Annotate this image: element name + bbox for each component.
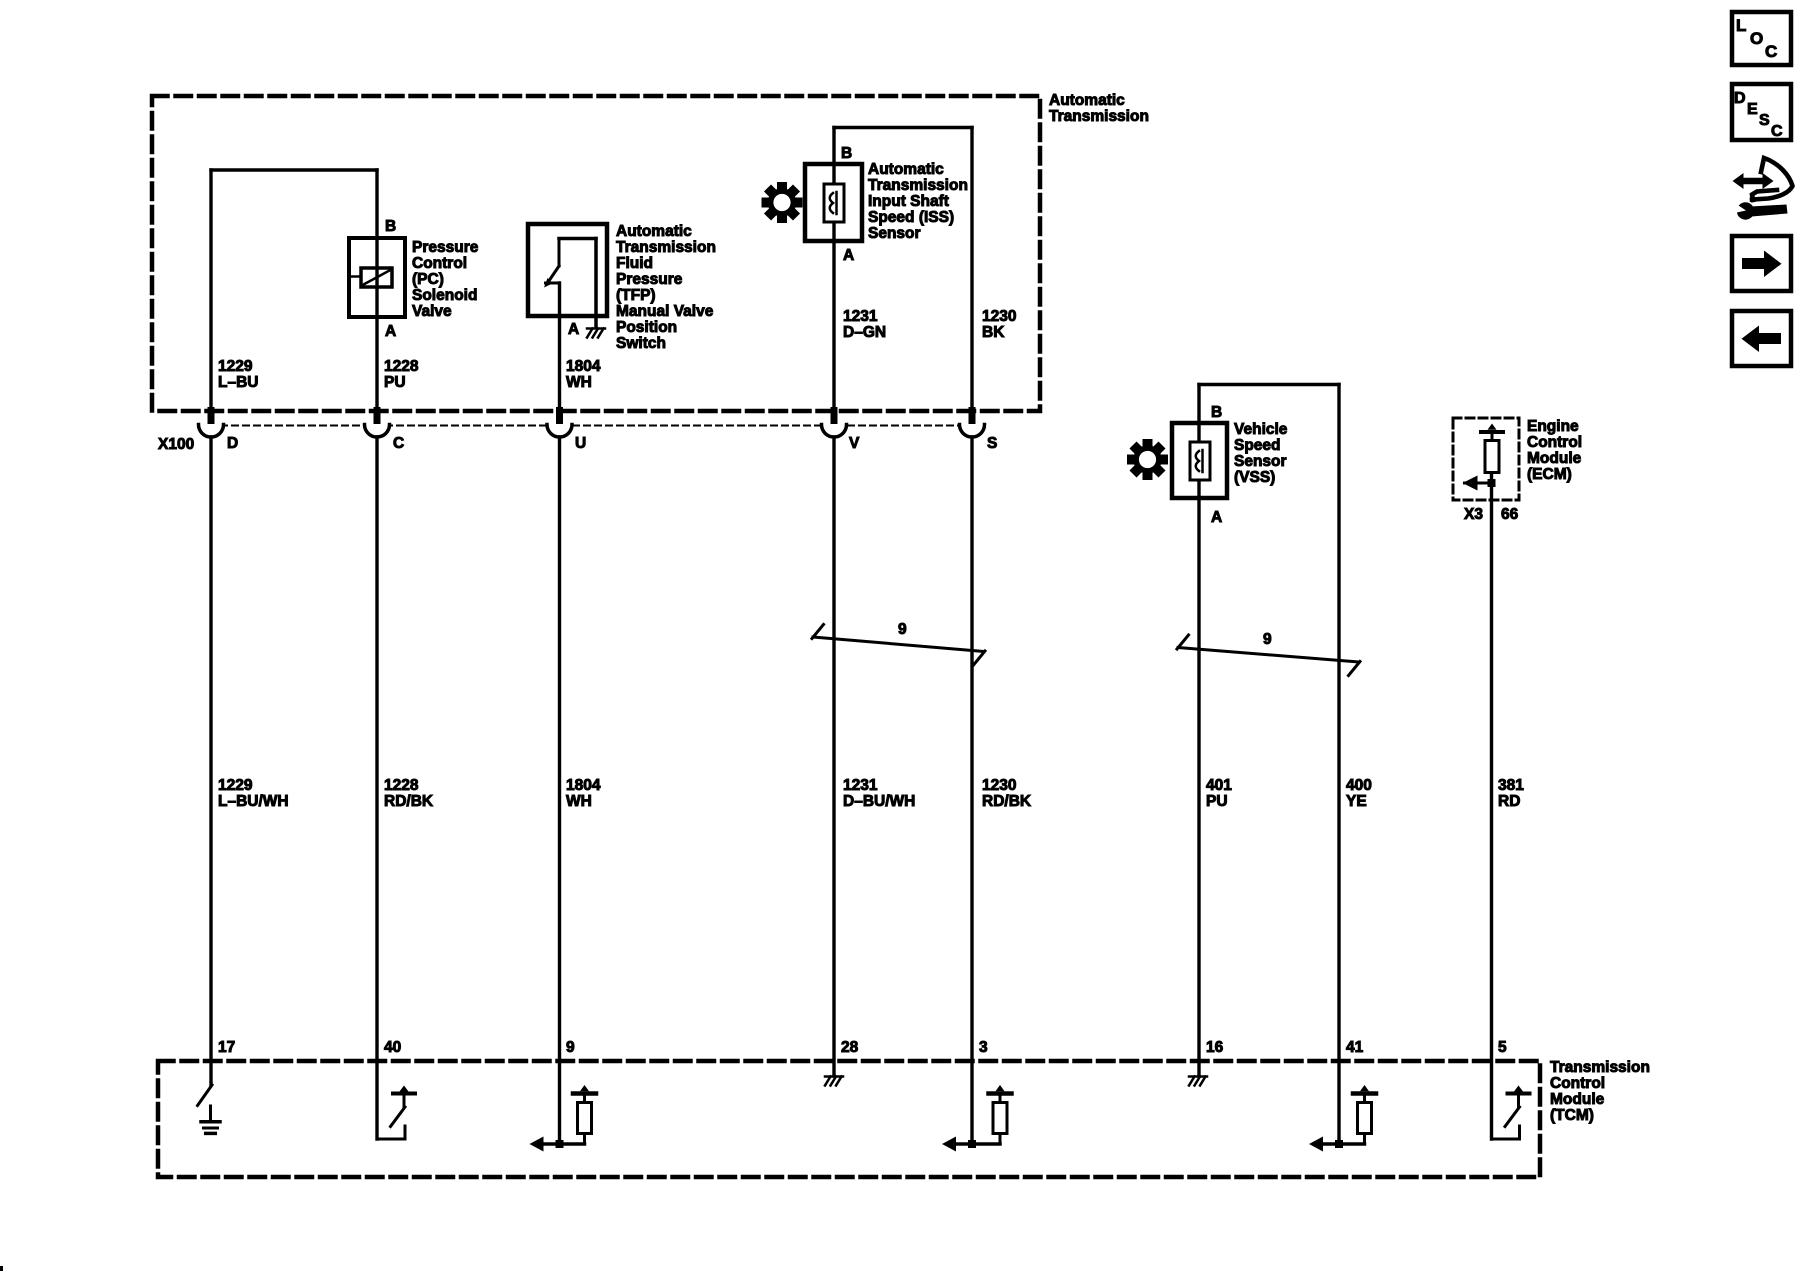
svg-text:Sensor: Sensor — [1234, 453, 1287, 470]
svg-text:Input Shaft: Input Shaft — [868, 193, 949, 210]
svg-text:S: S — [987, 435, 997, 452]
svg-text:E: E — [1747, 101, 1758, 118]
svg-text:D: D — [227, 435, 238, 452]
wire 1229 L-BU from X100 D to solenoid pin B — [209, 170, 212, 408]
wire 1230 BK from ISS loop to X100 S — [970, 128, 973, 409]
svg-text:Valve: Valve — [412, 303, 452, 320]
svg-text:(PC): (PC) — [412, 271, 444, 288]
svg-text:41: 41 — [1346, 1039, 1364, 1056]
svg-text:B: B — [385, 218, 396, 235]
ISS pickup coil element — [824, 184, 844, 222]
svg-text:Switch: Switch — [616, 335, 666, 352]
wire 1804 WH lower run to TCM pin 9 — [558, 437, 561, 1146]
svg-text:66: 66 — [1501, 506, 1519, 523]
svg-text:381: 381 — [1498, 777, 1524, 794]
TCM pin 28 chassis ground — [825, 1075, 843, 1078]
connector X100 dotted line — [199, 425, 985, 427]
Engine Control Module (ECM) dashed box — [1453, 418, 1519, 500]
svg-text:Vehicle: Vehicle — [1234, 421, 1288, 438]
svg-text:Sensor: Sensor — [868, 225, 921, 242]
svg-text:C: C — [1771, 123, 1783, 140]
svg-text:RD/BK: RD/BK — [384, 793, 434, 810]
Transmission Control Module (TCM) enclosure box — [158, 1061, 1540, 1177]
TCM pin 40 switch — [377, 1138, 405, 1141]
wire 1228 RD/BK lower run to TCM pin 40 — [375, 437, 378, 1139]
svg-text:(VSS): (VSS) — [1234, 469, 1275, 486]
bundle marker 9 across wires 401 and 400 — [1178, 648, 1359, 663]
svg-text:X3: X3 — [1464, 506, 1483, 523]
TCM pin 16 chassis ground — [1189, 1075, 1207, 1078]
wire 1230 RD/BK lower run to TCM pin 3 — [970, 437, 973, 1145]
svg-text:D–GN: D–GN — [843, 324, 886, 341]
connector X100 terminal S — [969, 407, 976, 424]
svg-text:RD/BK: RD/BK — [982, 793, 1032, 810]
svg-text:1229: 1229 — [218, 358, 253, 375]
svg-text:A: A — [385, 323, 396, 340]
DESC nav icon — [1732, 84, 1791, 140]
wire 400 YE from VSS loop to TCM pin 41 — [1337, 385, 1340, 1145]
PC solenoid coil element — [361, 268, 392, 287]
svg-text:1804: 1804 — [566, 777, 601, 794]
svg-text:400: 400 — [1346, 777, 1372, 794]
svg-text:D: D — [1734, 90, 1746, 107]
svg-text:Transmission: Transmission — [1550, 1059, 1650, 1076]
svg-text:O: O — [1750, 29, 1763, 48]
svg-text:1231: 1231 — [843, 777, 878, 794]
svg-text:Fluid: Fluid — [616, 255, 653, 272]
wire ISS loop top — [834, 126, 972, 129]
svg-text:Module: Module — [1550, 1091, 1605, 1108]
svg-text:Control: Control — [1550, 1075, 1605, 1092]
ISS gear icon — [777, 182, 787, 191]
svg-text:Transmission: Transmission — [616, 239, 716, 256]
svg-text:A: A — [1211, 509, 1222, 526]
svg-text:5: 5 — [1498, 1039, 1507, 1056]
connector X100 terminal D — [208, 407, 215, 424]
wire VSS loop top — [1199, 383, 1339, 386]
svg-text:401: 401 — [1206, 777, 1232, 794]
diagnostic tools icon — [1733, 158, 1793, 220]
TCM pin 17 switch to ground — [198, 1085, 213, 1106]
svg-text:Manual Valve: Manual Valve — [616, 303, 714, 320]
svg-text:Transmission: Transmission — [1049, 108, 1149, 125]
wire 1229 L-BU/WH lower run to TCM pin 17 — [209, 437, 212, 1085]
svg-text:L–BU/WH: L–BU/WH — [218, 793, 289, 810]
svg-text:V: V — [849, 435, 860, 452]
TCM pin 9 pullup resistor and signal arrow — [543, 1142, 585, 1146]
Automatic Transmission enclosure box — [152, 96, 1040, 411]
back arrow nav icon — [1732, 311, 1791, 366]
svg-text:1230: 1230 — [982, 777, 1016, 794]
svg-text:17: 17 — [218, 1039, 235, 1056]
TFP internal chassis ground — [587, 327, 605, 330]
connector X100 terminal V — [831, 407, 838, 424]
Pressure Control (PC) Solenoid Valve box — [349, 238, 405, 317]
svg-text:PU: PU — [384, 374, 406, 391]
svg-text:BK: BK — [982, 324, 1005, 341]
wire 1804 WH from TFP switch pin A to X100 U — [558, 283, 561, 408]
wire 381 RD from ECM to TCM pin 5 — [1490, 473, 1493, 1140]
svg-text:9: 9 — [898, 621, 907, 638]
VSS gear icon — [1143, 439, 1153, 448]
Vehicle Speed Sensor (VSS) box — [1172, 423, 1227, 498]
svg-text:L: L — [1736, 16, 1746, 35]
wire 1228 PU from solenoid pin A to X100 C — [375, 238, 378, 408]
svg-text:L–BU: L–BU — [218, 374, 258, 391]
wire 1231 D-BU/WH lower run to TCM pin 28 — [832, 437, 835, 1076]
svg-text:Solenoid: Solenoid — [412, 287, 477, 304]
svg-text:Automatic: Automatic — [1049, 92, 1125, 109]
svg-text:Control: Control — [412, 255, 467, 272]
TFP switch contacts — [559, 237, 596, 241]
svg-text:Module: Module — [1527, 450, 1582, 467]
VSS pickup coil element — [1190, 442, 1210, 480]
connector X100 terminal U — [556, 407, 563, 424]
svg-text:1231: 1231 — [843, 308, 878, 325]
svg-text:PU: PU — [1206, 793, 1228, 810]
forward arrow nav icon — [1732, 236, 1791, 291]
svg-text:9: 9 — [566, 1039, 575, 1056]
svg-text:16: 16 — [1206, 1039, 1224, 1056]
svg-text:WH: WH — [566, 374, 592, 391]
svg-text:Position: Position — [616, 319, 677, 336]
svg-text:(TCM): (TCM) — [1550, 1107, 1594, 1124]
LOC nav icon — [1732, 12, 1791, 65]
svg-text:YE: YE — [1346, 793, 1367, 810]
svg-text:Automatic: Automatic — [868, 161, 944, 178]
svg-text:RD: RD — [1498, 793, 1520, 810]
svg-text:Control: Control — [1527, 434, 1582, 451]
svg-text:Pressure: Pressure — [412, 239, 479, 256]
svg-text:3: 3 — [979, 1039, 988, 1056]
ECM internal pullup and signal arrow — [1481, 430, 1503, 434]
svg-text:(ECM): (ECM) — [1527, 466, 1572, 483]
svg-text:A: A — [843, 247, 854, 264]
svg-text:A: A — [568, 321, 579, 338]
page mark bottom left — [0, 1266, 3, 1271]
svg-text:Engine: Engine — [1527, 418, 1579, 435]
svg-text:X100: X100 — [158, 436, 194, 453]
svg-text:1230: 1230 — [982, 308, 1016, 325]
TCM pin 41 pullup resistor and signal arrow — [1322, 1142, 1365, 1146]
TCM pin 5 switch — [1492, 1138, 1520, 1141]
svg-text:Transmission: Transmission — [868, 177, 968, 194]
svg-text:1804: 1804 — [566, 358, 601, 375]
svg-text:D–BU/WH: D–BU/WH — [843, 793, 915, 810]
svg-text:Pressure: Pressure — [616, 271, 683, 288]
svg-text:WH: WH — [566, 793, 592, 810]
svg-text:(TFP): (TFP) — [616, 287, 656, 304]
svg-text:U: U — [575, 435, 586, 452]
Automatic Transmission Fluid Pressure (TFP) Manual Valve Position Switch box — [528, 224, 607, 316]
svg-text:Automatic: Automatic — [616, 223, 692, 240]
svg-text:1229: 1229 — [218, 777, 253, 794]
svg-text:9: 9 — [1263, 631, 1272, 648]
svg-text:C: C — [393, 435, 404, 452]
svg-text:S: S — [1759, 112, 1770, 129]
svg-text:40: 40 — [384, 1039, 401, 1056]
svg-text:28: 28 — [841, 1039, 859, 1056]
TCM pin 3 pullup resistor and signal arrow — [955, 1142, 1000, 1146]
svg-text:B: B — [841, 145, 852, 162]
bundle marker 9 across wires V and S — [813, 637, 984, 652]
svg-text:1228: 1228 — [384, 358, 419, 375]
svg-text:B: B — [1211, 404, 1222, 421]
connector X100 terminal C — [374, 407, 381, 424]
Automatic Transmission Input Shaft Speed (ISS) Sensor box — [805, 164, 862, 241]
svg-text:C: C — [1765, 42, 1777, 61]
svg-text:Speed (ISS): Speed (ISS) — [868, 209, 954, 226]
svg-text:1228: 1228 — [384, 777, 419, 794]
svg-text:Speed: Speed — [1234, 437, 1281, 454]
